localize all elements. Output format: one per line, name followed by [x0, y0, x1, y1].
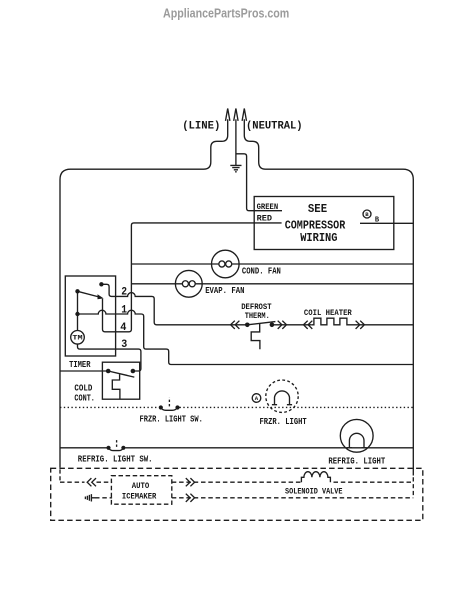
- svg-text:SOLENOID VALVE: SOLENOID VALVE: [285, 486, 343, 496]
- svg-text:FRZR. LIGHT: FRZR. LIGHT: [260, 417, 308, 427]
- svg-text:(NEUTRAL): (NEUTRAL): [246, 121, 303, 133]
- svg-text:REFRIG. LIGHT SW.: REFRIG. LIGHT SW.: [78, 455, 153, 465]
- svg-text:AUTO: AUTO: [132, 481, 150, 491]
- svg-text:AppliancePartsPros.com: AppliancePartsPros.com: [163, 6, 289, 20]
- svg-text:TM: TM: [72, 335, 83, 342]
- svg-text:COLD: COLD: [74, 384, 92, 394]
- svg-text:SEE: SEE: [308, 202, 327, 216]
- svg-text:FRZR. LIGHT SW.: FRZR. LIGHT SW.: [140, 415, 203, 425]
- svg-text:2: 2: [121, 287, 127, 299]
- svg-text:REFRIG. LIGHT: REFRIG. LIGHT: [328, 457, 385, 467]
- svg-text:GREEN: GREEN: [257, 202, 279, 212]
- svg-text:THERM.: THERM.: [245, 311, 270, 321]
- svg-text:WIRING: WIRING: [300, 231, 337, 245]
- svg-text:A: A: [255, 395, 259, 402]
- svg-text:TIMER: TIMER: [69, 360, 91, 370]
- svg-text:1: 1: [121, 305, 127, 317]
- svg-text:4: 4: [120, 322, 127, 334]
- svg-text:3: 3: [121, 339, 127, 351]
- svg-text:CONT.: CONT.: [74, 393, 95, 403]
- svg-text:EVAP. FAN: EVAP. FAN: [205, 286, 244, 296]
- svg-text:COND. FAN: COND. FAN: [242, 267, 281, 277]
- svg-text:ICEMAKER: ICEMAKER: [122, 491, 157, 501]
- svg-text:RED: RED: [257, 213, 272, 223]
- svg-text:(LINE): (LINE): [182, 121, 220, 133]
- svg-text:COIL HEATER: COIL HEATER: [304, 308, 353, 318]
